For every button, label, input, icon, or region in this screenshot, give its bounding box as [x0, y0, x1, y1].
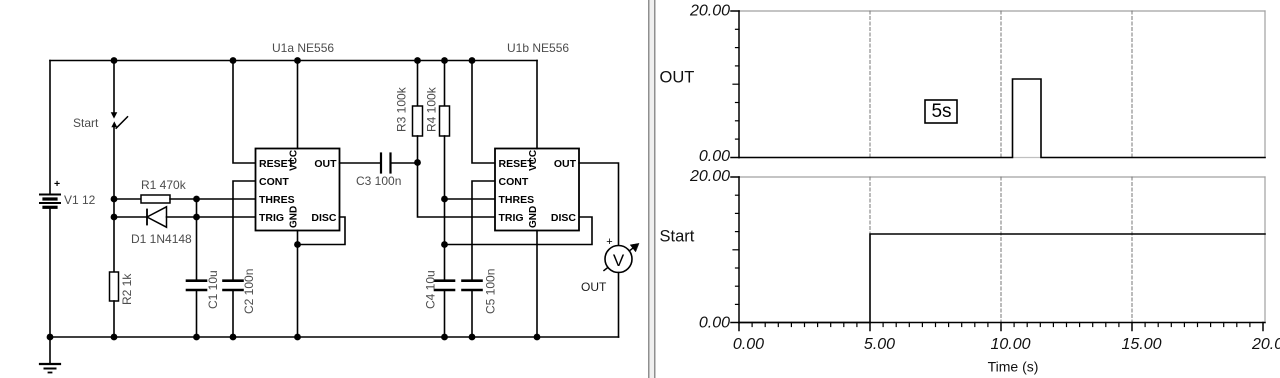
- svg-text:GND: GND: [528, 206, 539, 228]
- capacitor C2 100n: [224, 281, 243, 337]
- wire switch node to R1/D1: [113, 199, 115, 217]
- wire C3/R3 node to U1b TRIG: [418, 163, 496, 218]
- svg-text:OUT: OUT: [581, 280, 607, 294]
- resistor R4 100k: [440, 61, 450, 200]
- resistor R3 100k: [413, 61, 423, 163]
- schematic labels: [54, 41, 607, 314]
- wire left rail upper: [49, 61, 51, 194]
- voltmeter OUT: [604, 236, 639, 337]
- svg-text:DISC: DISC: [311, 212, 337, 224]
- svg-text:15.00: 15.00: [1121, 336, 1161, 353]
- plot2 gridline 5s: [869, 177, 871, 323]
- wire U1b VCC riser: [536, 61, 538, 149]
- svg-text:OUT: OUT: [554, 158, 577, 170]
- svg-text:C3 100n: C3 100n: [356, 174, 401, 188]
- switch Start: [111, 61, 127, 200]
- svg-text:10.00: 10.00: [990, 336, 1030, 353]
- svg-text:C5 100n: C5 100n: [484, 269, 498, 314]
- diode D1 1N4148: [114, 207, 197, 227]
- svg-text:D1 1N4148: D1 1N4148: [131, 232, 192, 246]
- wire U1a GND drop: [297, 231, 299, 338]
- svg-text:TRIG: TRIG: [259, 212, 284, 224]
- wire THRES stub U1b: [445, 198, 496, 200]
- plot2 y axis: [731, 177, 739, 323]
- wire U1a OUT stub: [340, 162, 382, 164]
- ground: [40, 337, 60, 373]
- svg-text:OUT: OUT: [660, 69, 695, 87]
- wire left rail lower: [49, 209, 51, 338]
- pin labels U1b: [499, 150, 577, 228]
- wire node x196 (R1/D1 to THRES/TRIG/C1): [196, 199, 198, 280]
- resistor R2 1k: [110, 217, 119, 337]
- wire top rail: [50, 60, 537, 62]
- svg-text:C1 10u: C1 10u: [206, 270, 220, 309]
- svg-text:R1 470k: R1 470k: [141, 178, 187, 192]
- wire U1a VCC riser: [297, 61, 299, 149]
- resistor R1 470k: [114, 195, 197, 203]
- svg-text:Start: Start: [73, 116, 99, 130]
- plot2 x axis: [739, 322, 1265, 324]
- svg-text:CONT: CONT: [499, 176, 529, 188]
- wire U1b RESET riser: [472, 61, 495, 164]
- plot1 bottom border: [739, 157, 1265, 159]
- svg-text:0.00: 0.00: [699, 315, 730, 332]
- wire U1b DISC loop: [445, 217, 593, 245]
- svg-text:R3 100k: R3 100k: [395, 86, 409, 132]
- svg-text:GND: GND: [289, 206, 300, 228]
- wire U1a DISC loop: [298, 217, 346, 245]
- plot2 gridline 10s: [1000, 177, 1002, 323]
- capacitor C3 100n: [381, 154, 418, 173]
- capacitor C4 10u: [435, 281, 454, 337]
- svg-text:OUT: OUT: [314, 158, 337, 170]
- plot 2 (Start): [660, 168, 1280, 375]
- plot1 y axis: [731, 11, 739, 158]
- plot1 gridline 15s: [1131, 11, 1133, 158]
- svg-text:U1b NE556: U1b NE556: [507, 41, 569, 55]
- svg-text:THRES: THRES: [499, 194, 535, 206]
- svg-text:DISC: DISC: [551, 212, 577, 224]
- svg-text:V: V: [613, 251, 625, 270]
- svg-text:R2 1k: R2 1k: [120, 273, 134, 305]
- svg-text:VCC: VCC: [289, 150, 300, 171]
- plot2 top border: [739, 176, 1265, 178]
- plot1 gridline 5s: [869, 11, 871, 158]
- svg-text:+: +: [54, 178, 60, 190]
- svg-text:+: +: [606, 236, 612, 248]
- svg-text:C4 10u: C4 10u: [424, 270, 438, 309]
- wire R4 to C4 node: [444, 199, 446, 280]
- pin labels U1a: [259, 150, 337, 228]
- svg-text:0.00: 0.00: [699, 148, 730, 165]
- svg-text:20.00: 20.00: [689, 168, 730, 185]
- op-amp U1a NE556 box: [256, 149, 340, 231]
- plot1 y minor ticks: [733, 29, 739, 139]
- svg-text:20.00: 20.00: [689, 3, 730, 20]
- wire U1b CONT to C5: [472, 181, 495, 280]
- capacitor C5 100n: [463, 281, 482, 337]
- capacitor C1 10u: [187, 281, 206, 337]
- svg-text:U1a NE556: U1a NE556: [272, 41, 334, 55]
- svg-text:0.00: 0.00: [733, 336, 764, 353]
- svg-text:20.00: 20.00: [1251, 336, 1280, 353]
- svg-text:5.00: 5.00: [864, 336, 895, 353]
- wire bottom rail: [50, 336, 619, 338]
- op-amp U1b NE556 box: [495, 149, 579, 231]
- battery V1 12: [40, 195, 60, 208]
- svg-text:Start: Start: [660, 228, 695, 246]
- plot2 x minor ticks: [752, 323, 1250, 327]
- plot2 x major ticks: [739, 323, 1263, 331]
- Start waveform: [739, 234, 1265, 323]
- svg-text:C2 100n: C2 100n: [242, 269, 256, 314]
- OUT waveform: [739, 79, 1265, 158]
- svg-text:THRES: THRES: [259, 194, 295, 206]
- plot1 top border: [739, 10, 1265, 12]
- svg-text:V1 12: V1 12: [64, 193, 96, 207]
- wire U1b OUT to voltmeter: [579, 163, 619, 246]
- svg-text:R4 100k: R4 100k: [425, 86, 439, 132]
- svg-text:VCC: VCC: [528, 150, 539, 171]
- plot 1 (OUT): [660, 3, 1266, 166]
- svg-text:CONT: CONT: [259, 176, 289, 188]
- svg-text:TRIG: TRIG: [499, 212, 524, 224]
- plot1 gridline 10s: [1000, 11, 1002, 158]
- wire U1a RESET riser: [233, 61, 256, 164]
- plot2 right border: [1264, 177, 1266, 323]
- plot2 y minor ticks: [733, 195, 739, 304]
- svg-text:Time (s): Time (s): [988, 359, 1039, 375]
- plot2 gridline 15s: [1131, 177, 1133, 323]
- wire U1b GND drop: [536, 231, 538, 338]
- plot1 right border: [1264, 11, 1266, 158]
- wire U1a CONT to C2: [233, 181, 256, 280]
- wire THRES stub U1a: [197, 198, 256, 200]
- 5s annotation box: [925, 100, 957, 123]
- wire TRIG stub U1a: [197, 216, 256, 218]
- svg-text:5s: 5s: [931, 101, 951, 122]
- window splitter: [648, 0, 656, 378]
